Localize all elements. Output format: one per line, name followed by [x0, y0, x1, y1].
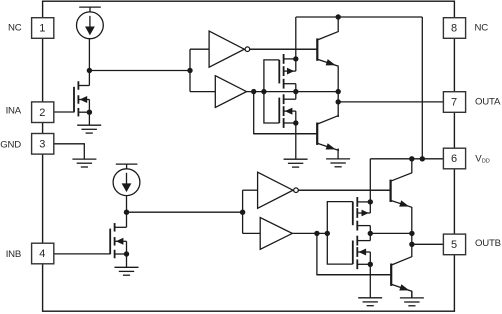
wire OUTA to pin 7	[338, 101, 443, 103]
svg-text:6: 6	[451, 153, 457, 165]
node Q8 source	[368, 262, 373, 267]
node OUTA	[336, 99, 341, 104]
pin 1 box	[32, 18, 54, 39]
wire OUTB to pin 5	[412, 243, 444, 245]
svg-text:4: 4	[39, 248, 45, 260]
wire Q2 body tie	[126, 241, 128, 254]
mosfet Q3 PMOS output A	[279, 54, 296, 89]
node Q7 drain VDD tie	[368, 199, 373, 204]
mosfet Q7 PMOS output B	[353, 197, 371, 231]
transistor Q9 NPN pull-up B	[298, 159, 412, 208]
wire Q4 body tie	[295, 111, 297, 123]
svg-text:OUTB: OUTB	[475, 238, 501, 249]
wire VDD rail B drop to Q7	[369, 159, 371, 213]
node U3 out branch	[251, 89, 256, 94]
VDD supply bar for current source I2	[116, 164, 138, 169]
gate bus loop A	[264, 60, 279, 123]
wire I2 to input FET drain	[126, 196, 128, 228]
svg-text:OUTA: OUTA	[475, 97, 501, 108]
node Q4 source	[293, 120, 298, 125]
wire Q7 source to midpoint	[369, 226, 371, 234]
wire U5 output bus B	[292, 232, 327, 234]
node gate bus B	[325, 231, 330, 236]
svg-text:8: 8	[451, 23, 457, 35]
gate bus loop B	[327, 202, 353, 265]
mosfet Q2 input NMOS channel B	[110, 223, 126, 258]
pin 3 box	[32, 134, 54, 155]
VDD rail A	[296, 16, 423, 18]
pin 6 box	[443, 148, 465, 169]
ground of Q1	[77, 125, 101, 133]
wire fork B to buffer U5 input	[243, 232, 261, 234]
wire fork B vertical	[242, 190, 244, 233]
wire Q10 emitter to ground	[411, 292, 413, 299]
inverter U2	[209, 31, 244, 67]
wire U4 output to Q9 base	[298, 189, 390, 191]
svg-text:3: 3	[39, 138, 45, 150]
buffer U3	[215, 76, 246, 108]
node Q3 drain VDD tie	[293, 56, 298, 61]
node fork A	[187, 68, 192, 73]
wire fork A to buffer U3 input	[190, 91, 215, 93]
wire pin4 INB to Q2 gate	[54, 253, 110, 255]
current source I2	[113, 169, 140, 196]
wire Q8 source to ground	[369, 264, 371, 298]
mosfet Q1 input NMOS channel A	[74, 81, 89, 116]
wire rail A down to pin6 net	[421, 17, 423, 159]
wire Q1 source to ground	[88, 112, 90, 125]
pin 8 box	[443, 18, 465, 39]
wire Q5 emitter to Q6 collector	[337, 67, 339, 117]
wire U3 branch to Q6 base	[254, 92, 318, 134]
node Q1 source	[87, 110, 92, 115]
wire I1 to input FET drain	[88, 39, 90, 86]
node Q2 source	[124, 251, 129, 256]
wire Q2 source to ground	[126, 254, 128, 267]
wire VDD rail A drop to Q3	[295, 17, 297, 71]
wire Q8 drain to midpoint	[369, 233, 371, 240]
svg-text:DD: DD	[482, 159, 490, 165]
svg-text:INB: INB	[6, 249, 21, 260]
node U5 out branch	[314, 231, 319, 236]
ground of Q8	[358, 298, 382, 306]
pin 5 box	[443, 234, 465, 255]
svg-text:1: 1	[39, 23, 45, 35]
transistor Q10 NPN pull-down B	[317, 257, 412, 298]
VDD rail B to pin 6	[370, 158, 443, 160]
pin 7 box	[443, 92, 465, 113]
pin 2 box	[32, 102, 54, 123]
ground of Q6	[326, 159, 350, 167]
wire Q4 source to ground	[295, 123, 297, 159]
ground of Q4	[284, 159, 308, 167]
node Q9 collector at rail	[409, 156, 414, 161]
svg-text:NC: NC	[475, 23, 489, 34]
wire fork A vertical	[189, 49, 191, 91]
node OUTB	[409, 242, 414, 247]
wire Q3 source to midpoint	[295, 84, 297, 92]
wire U5 branch to Q10 base	[317, 233, 391, 274]
wire CMOS B midpoint to output stage	[370, 232, 412, 234]
wire pin2 INA to Q1 gate	[54, 111, 74, 113]
ground of pin 3 GND	[72, 159, 96, 167]
node A input level-shift	[87, 68, 92, 73]
svg-text:2: 2	[39, 107, 45, 119]
wire Q8 body tie	[369, 252, 371, 264]
node CMOS A midpoint	[293, 89, 298, 94]
wire pin3 GND to ground	[54, 144, 85, 159]
wire fork A to inverter U2 input	[190, 48, 209, 50]
node rail A junction	[420, 156, 425, 161]
wire Q9 emitter to Q10 collector	[411, 208, 413, 257]
svg-text:NC: NC	[8, 23, 22, 34]
svg-text:5: 5	[451, 239, 457, 251]
pin 4 box	[32, 243, 54, 264]
node gate bus A	[261, 89, 266, 94]
wire Q4 drain to midpoint	[295, 92, 297, 100]
wire U3 output bus A	[247, 91, 339, 93]
buffer U5	[260, 218, 292, 250]
mosfet Q8 NMOS output B	[353, 236, 371, 270]
node fork B	[240, 210, 245, 215]
ground of Q10	[400, 298, 424, 306]
node output stage B mid	[409, 231, 414, 236]
transistor Q5 NPN pull-up A	[250, 17, 339, 67]
node output stage A mid	[336, 89, 341, 94]
node B input level-shift	[124, 210, 129, 215]
transistor Q6 NPN pull-down A	[254, 116, 339, 151]
svg-text:INA: INA	[6, 106, 22, 117]
wire fork B to inverter U4 input	[243, 189, 258, 191]
wire U2 output to Q5 base	[250, 48, 318, 50]
wire node to fork A	[89, 70, 190, 72]
ground of Q2	[115, 267, 139, 275]
svg-text:7: 7	[451, 97, 457, 109]
inverter U4	[258, 172, 293, 208]
svg-text:GND: GND	[0, 140, 21, 151]
current source I1	[77, 12, 104, 39]
VDD supply bar for current source I1	[79, 7, 101, 12]
node Q5 collector at rail	[336, 14, 341, 19]
wire Q1 body tie	[88, 100, 90, 113]
node CMOS B midpoint	[368, 231, 373, 236]
wire Q6 emitter to ground	[337, 149, 339, 159]
wire node to fork B	[127, 211, 243, 213]
mosfet Q4 NMOS output A	[279, 94, 296, 128]
